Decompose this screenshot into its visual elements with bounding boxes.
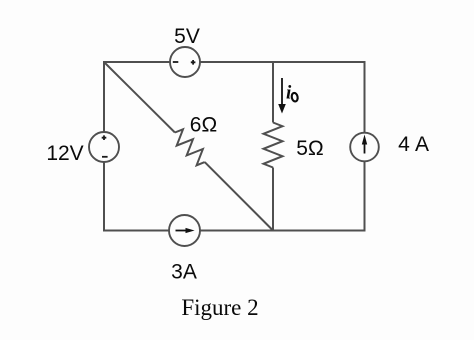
svg-text:5V: 5V <box>174 25 200 48</box>
svg-text:A: A <box>415 133 429 156</box>
svg-text:3A: 3A <box>171 261 197 284</box>
svg-text:4: 4 <box>398 133 410 156</box>
svg-text:12V: 12V <box>46 142 83 165</box>
svg-text:6Ω: 6Ω <box>190 114 217 137</box>
svg-text:5Ω: 5Ω <box>296 137 323 160</box>
svg-text:Figure 2: Figure 2 <box>181 295 258 320</box>
svg-text:i: i <box>286 83 292 104</box>
